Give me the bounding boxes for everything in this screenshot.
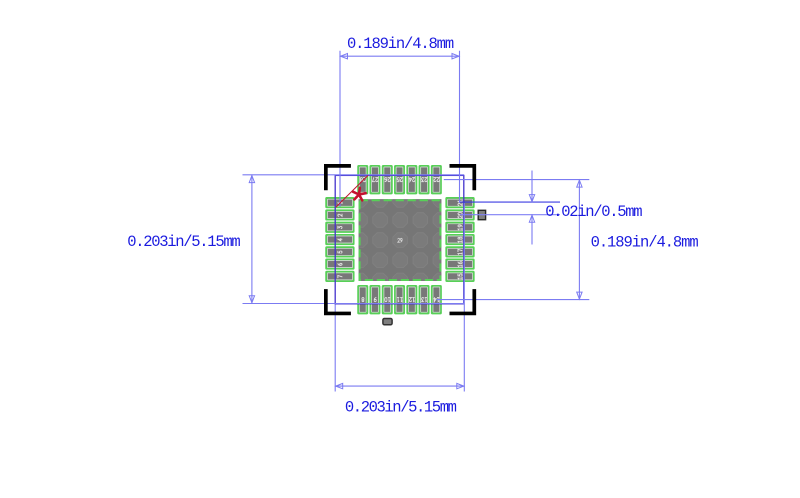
svg-text:0.189in/4.8mm: 0.189in/4.8mm bbox=[591, 234, 699, 252]
svg-text:0.203in/5.15mm: 0.203in/5.15mm bbox=[127, 233, 240, 251]
svg-text:0.203in/5.15mm: 0.203in/5.15mm bbox=[345, 398, 457, 416]
svg-text:0.02in/0.5mm: 0.02in/0.5mm bbox=[545, 203, 642, 221]
svg-text:0.189in/4.8mm: 0.189in/4.8mm bbox=[347, 35, 454, 53]
